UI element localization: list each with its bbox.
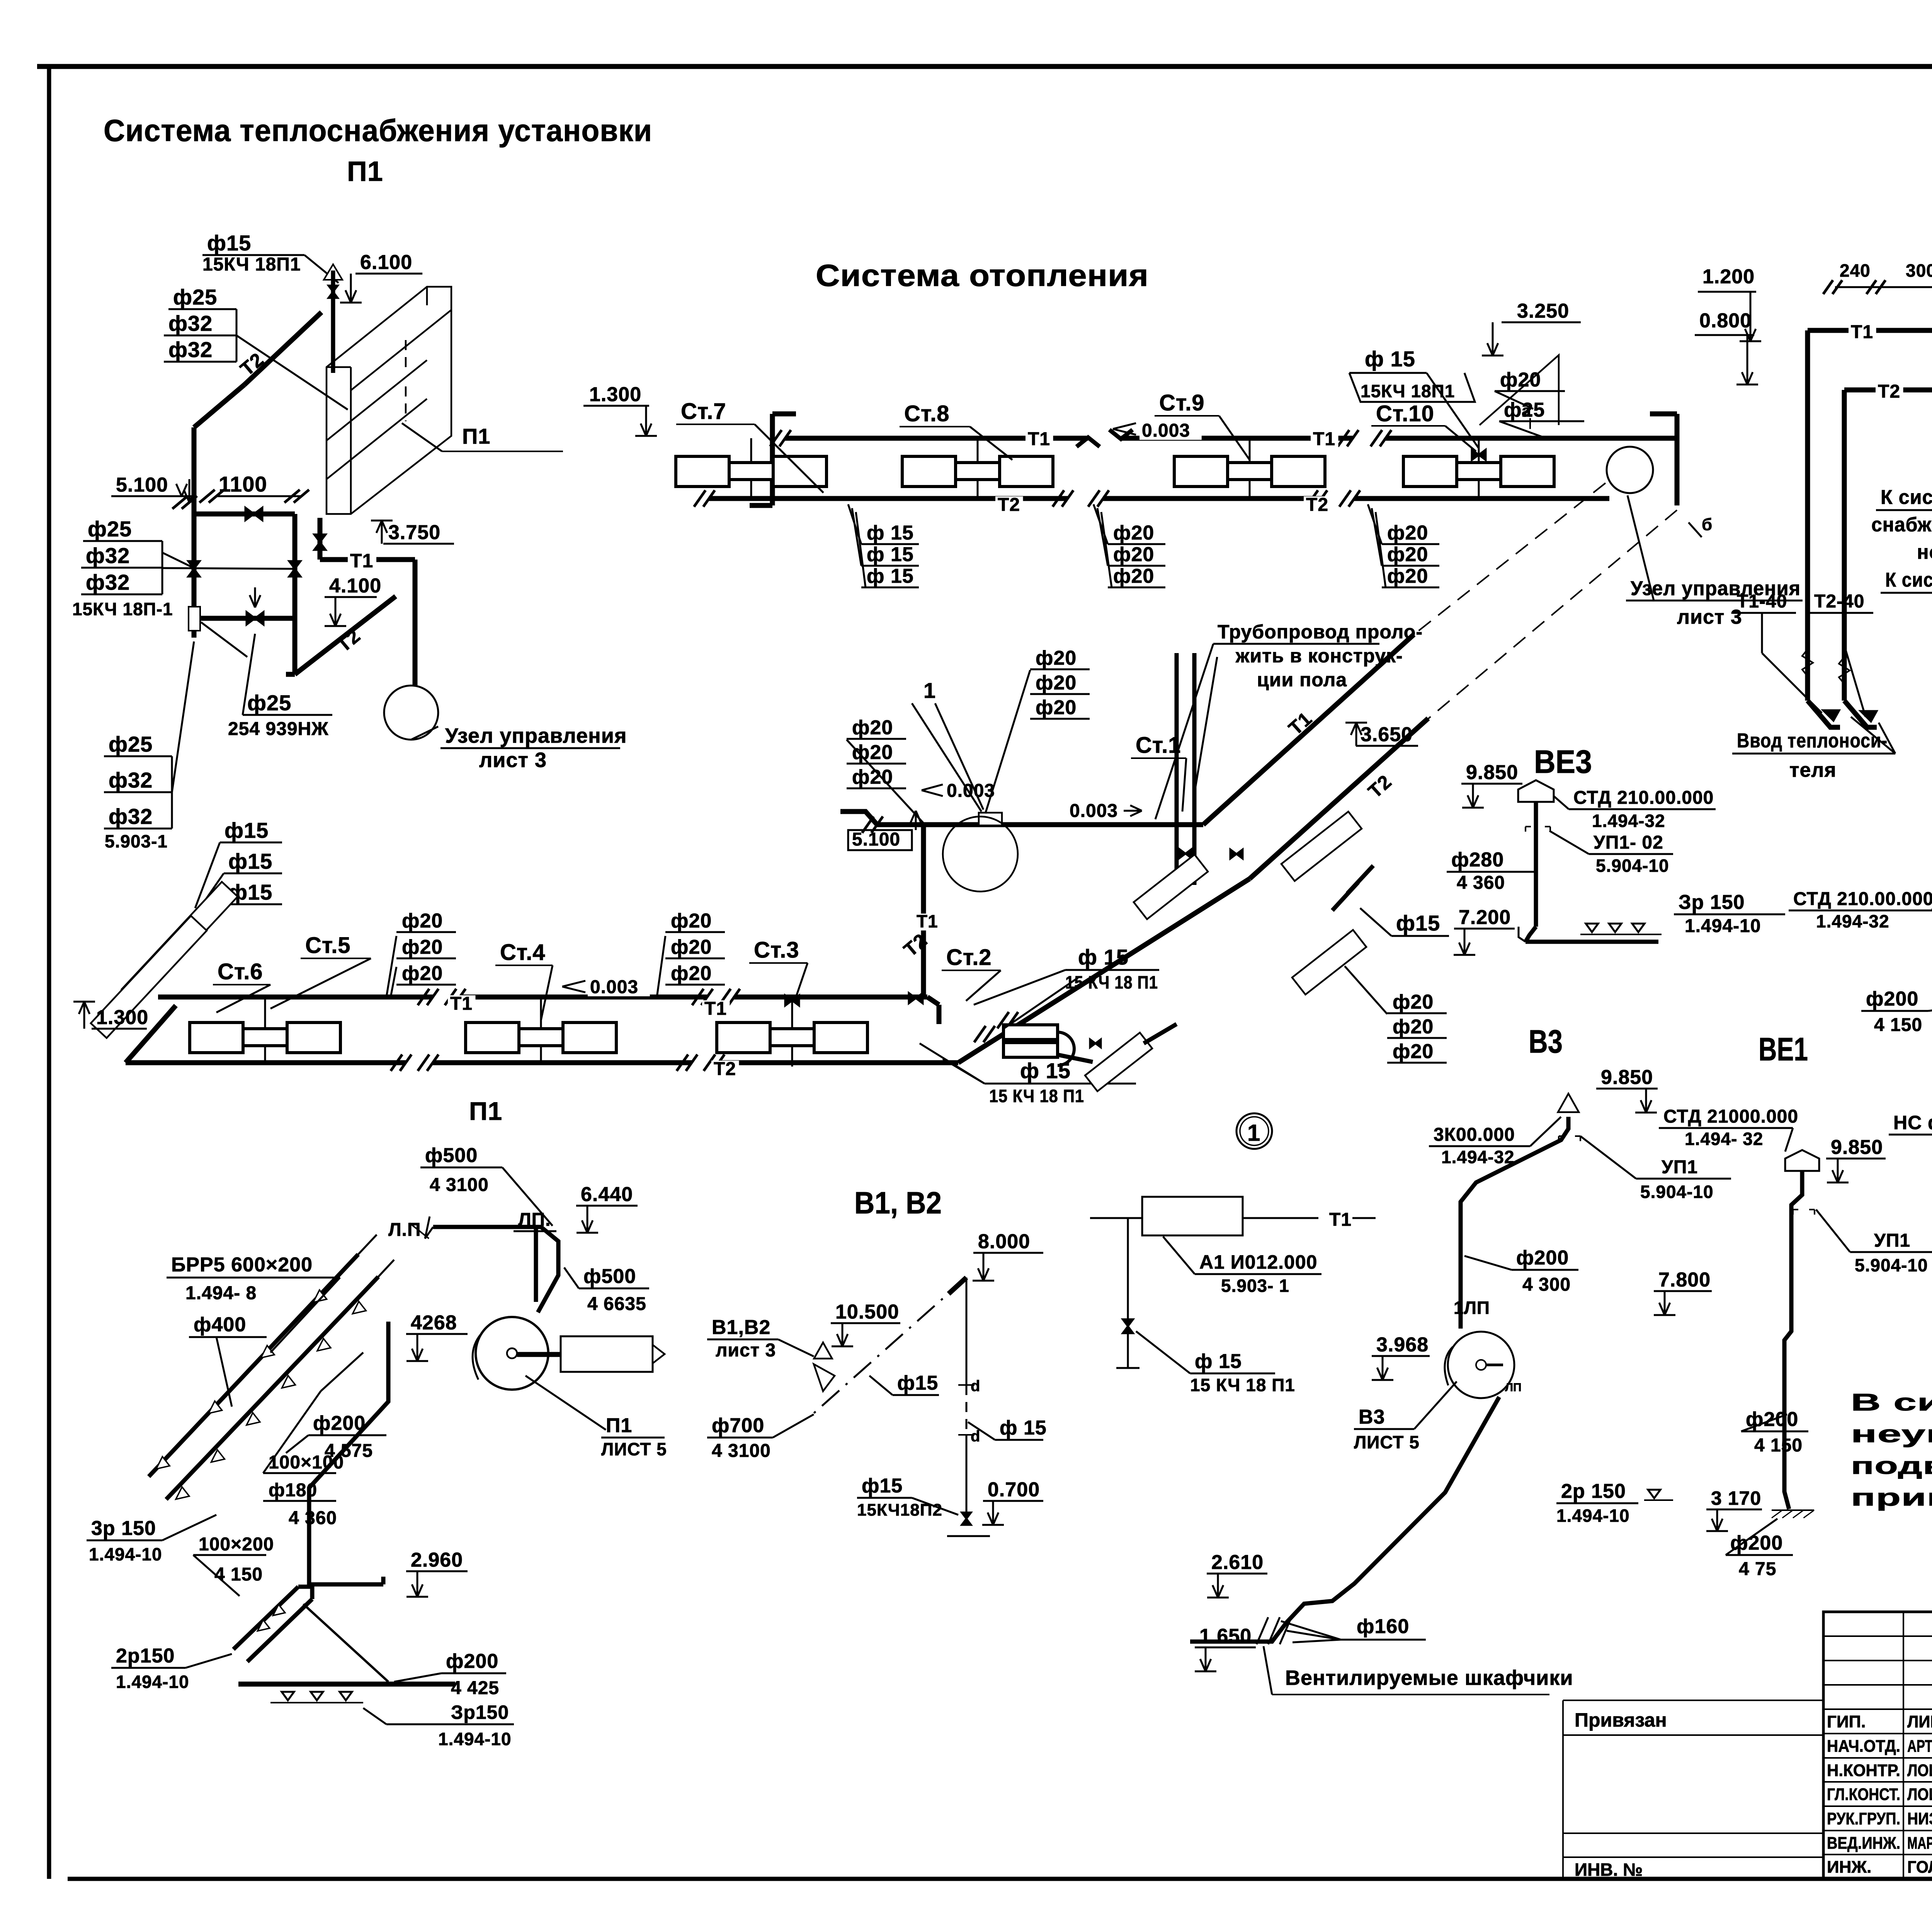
svg-text:ф20: ф20 — [1113, 522, 1154, 544]
svg-text:5.904-10: 5.904-10 — [1855, 1255, 1928, 1275]
svg-text:принять диаметром 15.: принять диаметром 15. — [1851, 1484, 1932, 1511]
svg-text:15 КЧ 18 П1: 15 КЧ 18 П1 — [1190, 1375, 1295, 1395]
svg-text:СТД 21000.000: СТД 21000.000 — [1663, 1106, 1798, 1127]
svg-text:ф700: ф700 — [712, 1414, 764, 1437]
svg-text:Ст.5: Ст.5 — [305, 933, 351, 958]
svg-text:Т2-40: Т2-40 — [1814, 591, 1864, 612]
svg-text:ф200: ф200 — [1516, 1247, 1569, 1269]
svg-text:Т2: Т2 — [714, 1059, 736, 1079]
svg-text:ЛОШАКОВА: ЛОШАКОВА — [1907, 1761, 1932, 1780]
svg-text:7.200: 7.200 — [1459, 906, 1511, 929]
svg-text:3К00.000: 3К00.000 — [1434, 1125, 1515, 1145]
svg-text:ЛИВТОРАК: ЛИВТОРАК — [1907, 1712, 1932, 1731]
svg-text:Система отопления: Система отопления — [816, 258, 1149, 293]
svg-text:ИНВ. №: ИНВ. № — [1575, 1860, 1643, 1880]
svg-text:4 75: 4 75 — [1739, 1559, 1776, 1579]
svg-text:П1: П1 — [347, 156, 383, 187]
svg-text:1.200: 1.200 — [1702, 265, 1755, 288]
svg-text:100×200: 100×200 — [199, 1534, 274, 1555]
svg-text:Узел управления: Узел управления — [445, 724, 627, 747]
svg-text:1.494-32: 1.494-32 — [1592, 811, 1665, 831]
svg-text:БРР5 600×200: БРР5 600×200 — [171, 1254, 313, 1276]
svg-text:Ст.8: Ст.8 — [904, 401, 950, 426]
svg-text:1.650: 1.650 — [1199, 1625, 1252, 1647]
svg-text:Ст.4: Ст.4 — [500, 940, 546, 965]
svg-text:Т1: Т1 — [1851, 322, 1873, 342]
svg-text:4 150: 4 150 — [214, 1564, 263, 1585]
svg-text:ф15: ф15 — [862, 1475, 903, 1497]
svg-text:2р 150: 2р 150 — [1561, 1480, 1626, 1502]
svg-text:Ст.7: Ст.7 — [681, 399, 726, 424]
svg-text:НС ф200: НС ф200 — [1893, 1112, 1932, 1133]
svg-text:4 360: 4 360 — [1457, 873, 1505, 893]
svg-text:ф32: ф32 — [168, 337, 213, 362]
svg-text:НАЧ.ОТД.: НАЧ.ОТД. — [1827, 1737, 1900, 1756]
svg-text:Н.КОНТР.: Н.КОНТР. — [1827, 1761, 1900, 1780]
svg-text:1100: 1100 — [219, 472, 267, 496]
svg-text:ф20: ф20 — [671, 910, 712, 932]
svg-text:ф32: ф32 — [109, 768, 153, 792]
svg-text:1ЛП: 1ЛП — [1454, 1298, 1490, 1318]
svg-text:Т1: Т1 — [704, 999, 727, 1019]
svg-text:ф20: ф20 — [1393, 1040, 1434, 1063]
svg-text:ГИП.: ГИП. — [1827, 1712, 1866, 1731]
svg-text:3.250: 3.250 — [1517, 300, 1569, 322]
svg-text:Т1: Т1 — [350, 550, 373, 572]
svg-text:Привязан: Привязан — [1575, 1709, 1667, 1731]
svg-text:8.000: 8.000 — [978, 1230, 1030, 1253]
svg-text:300: 300 — [1906, 260, 1932, 281]
svg-text:0.003: 0.003 — [1142, 420, 1190, 441]
svg-text:1.494- 32: 1.494- 32 — [1685, 1129, 1763, 1149]
svg-text:АРТЮШЕНКО: АРТЮШЕНКО — [1907, 1737, 1932, 1756]
svg-text:ЛОШАКОВА: ЛОШАКОВА — [1907, 1785, 1932, 1804]
svg-text:Зр150: Зр150 — [451, 1701, 509, 1723]
svg-text:теля: теля — [1789, 759, 1837, 781]
svg-text:d: d — [971, 1428, 980, 1445]
svg-text:РУК.ГРУП.: РУК.ГРУП. — [1827, 1809, 1900, 1828]
svg-text:ф200: ф200 — [1866, 988, 1918, 1010]
svg-text:15КЧ 18П-1: 15КЧ 18П-1 — [72, 599, 173, 619]
svg-text:4 3100: 4 3100 — [712, 1441, 771, 1461]
svg-text:ф20: ф20 — [402, 910, 443, 932]
svg-text:Ст.3: Ст.3 — [754, 937, 799, 963]
svg-text:15 КЧ 18 П1: 15 КЧ 18 П1 — [989, 1086, 1084, 1106]
svg-text:ф32: ф32 — [86, 570, 130, 594]
svg-text:1: 1 — [923, 678, 936, 703]
svg-text:ф 15: ф 15 — [867, 565, 914, 587]
svg-text:ф15: ф15 — [228, 849, 272, 873]
svg-text:ГЛ.КОНСТ.: ГЛ.КОНСТ. — [1827, 1785, 1900, 1804]
svg-text:1.494-10: 1.494-10 — [1685, 916, 1761, 936]
svg-text:Ст.10: Ст.10 — [1376, 401, 1434, 426]
svg-text:ф280: ф280 — [1451, 849, 1504, 871]
svg-text:Т1: Т1 — [1313, 429, 1335, 449]
svg-text:Ст.2: Ст.2 — [946, 945, 992, 970]
svg-text:ф20: ф20 — [671, 962, 712, 985]
svg-text:П1: П1 — [606, 1414, 632, 1437]
svg-text:Ст.1: Ст.1 — [1136, 733, 1181, 758]
svg-text:9.850: 9.850 — [1466, 761, 1518, 784]
svg-text:МАРКОВКИНА: МАРКОВКИНА — [1907, 1834, 1932, 1853]
svg-text:Т1: Т1 — [1028, 429, 1050, 449]
svg-text:1.494-10: 1.494-10 — [116, 1672, 189, 1692]
svg-text:ф200: ф200 — [1730, 1532, 1783, 1554]
svg-text:б: б — [1702, 515, 1712, 534]
svg-text:ф20: ф20 — [1387, 543, 1428, 566]
svg-text:ф400: ф400 — [194, 1313, 246, 1336]
svg-text:В1, В2: В1, В2 — [854, 1186, 942, 1220]
svg-text:УП1: УП1 — [1662, 1157, 1698, 1177]
svg-text:ф15: ф15 — [1396, 911, 1440, 935]
svg-text:4 6635: 4 6635 — [587, 1294, 646, 1314]
svg-text:ф15: ф15 — [207, 231, 251, 255]
svg-text:4 360: 4 360 — [289, 1508, 337, 1528]
svg-text:ГОЛЕНДЕР: ГОЛЕНДЕР — [1907, 1858, 1932, 1877]
svg-text:ВЕД.ИНЖ.: ВЕД.ИНЖ. — [1827, 1834, 1900, 1853]
svg-text:К системе отопления: К системе отопления — [1885, 569, 1932, 591]
svg-text:0.003: 0.003 — [590, 977, 638, 997]
svg-text:5.100: 5.100 — [116, 474, 168, 496]
svg-text:Т2: Т2 — [1878, 381, 1900, 402]
svg-text:3.650: 3.650 — [1361, 723, 1413, 746]
svg-text:ции пола: ции пола — [1257, 669, 1347, 691]
svg-text:ф200: ф200 — [446, 1650, 498, 1672]
svg-text:ЛИСТ 5: ЛИСТ 5 — [601, 1439, 667, 1459]
svg-text:УП1- 02: УП1- 02 — [1594, 832, 1663, 853]
svg-text:9.850: 9.850 — [1831, 1136, 1883, 1159]
svg-text:ф20: ф20 — [1113, 565, 1154, 587]
svg-text:ф20: ф20 — [852, 716, 893, 739]
svg-text:П1: П1 — [462, 424, 490, 448]
svg-text:ф20: ф20 — [1036, 672, 1077, 694]
svg-text:А1 И012.000: А1 И012.000 — [1199, 1251, 1317, 1273]
svg-text:ф32: ф32 — [168, 311, 213, 335]
svg-text:ф20: ф20 — [1393, 1016, 1434, 1038]
svg-text:ф25: ф25 — [247, 691, 291, 715]
svg-text:ф25: ф25 — [109, 732, 153, 756]
svg-text:2р150: 2р150 — [116, 1645, 175, 1667]
svg-text:5.100: 5.100 — [852, 829, 900, 850]
svg-text:ф25: ф25 — [88, 517, 132, 541]
svg-text:ф 15: ф 15 — [1365, 347, 1415, 371]
svg-text:ф20: ф20 — [1500, 369, 1541, 391]
svg-text:4 150: 4 150 — [1874, 1015, 1922, 1035]
svg-text:5.903- 1: 5.903- 1 — [1221, 1276, 1289, 1296]
svg-text:ф500: ф500 — [425, 1144, 478, 1167]
svg-text:4 425: 4 425 — [451, 1678, 499, 1698]
svg-text:Зр 150: Зр 150 — [1679, 891, 1745, 914]
svg-text:ф25: ф25 — [1504, 399, 1545, 421]
svg-text:Вентилируемые шкафчики: Вентилируемые шкафчики — [1285, 1666, 1573, 1690]
svg-text:ИНЖ.: ИНЖ. — [1827, 1858, 1871, 1877]
svg-text:ф20: ф20 — [1387, 565, 1428, 587]
svg-text:К системе тепло-: К системе тепло- — [1881, 486, 1932, 509]
svg-text:жить в конструк-: жить в конструк- — [1235, 645, 1403, 667]
svg-text:Т1: Т1 — [1329, 1210, 1352, 1230]
svg-text:ф 15: ф 15 — [867, 543, 914, 566]
svg-text:4 300: 4 300 — [1522, 1274, 1571, 1295]
svg-text:В системе отопления все: В системе отопления все — [1851, 1389, 1932, 1416]
svg-text:0.800: 0.800 — [1699, 310, 1752, 332]
svg-text:ф20: ф20 — [402, 962, 443, 985]
svg-text:ф20: ф20 — [1036, 696, 1077, 719]
svg-text:2.960: 2.960 — [411, 1549, 463, 1571]
svg-text:ф25: ф25 — [173, 285, 217, 309]
svg-text:ф15: ф15 — [224, 818, 269, 842]
svg-text:ф20: ф20 — [852, 766, 893, 788]
svg-text:ф20: ф20 — [1393, 991, 1434, 1013]
svg-text:Ст.6: Ст.6 — [218, 959, 263, 984]
svg-text:ф 15: ф 15 — [1078, 945, 1129, 969]
svg-text:Система теплоснабжения устан: Система теплоснабжения установки — [104, 113, 652, 148]
svg-text:ф160: ф160 — [1357, 1615, 1409, 1638]
svg-text:2.610: 2.610 — [1211, 1551, 1264, 1574]
svg-text:4 150: 4 150 — [1754, 1435, 1803, 1456]
svg-text:ф20: ф20 — [402, 936, 443, 958]
svg-text:ф 15: ф 15 — [1195, 1350, 1242, 1373]
svg-text:240: 240 — [1840, 260, 1871, 281]
svg-text:6.100: 6.100 — [360, 251, 412, 274]
svg-text:5.903-1: 5.903-1 — [105, 831, 168, 851]
svg-text:9.850: 9.850 — [1601, 1066, 1653, 1089]
svg-text:15КЧ 18П1: 15КЧ 18П1 — [202, 254, 301, 275]
svg-text:ЛИСТ 5: ЛИСТ 5 — [1354, 1432, 1420, 1452]
svg-text:0.700: 0.700 — [988, 1479, 1040, 1501]
svg-text:ф 15: ф 15 — [867, 522, 914, 544]
svg-text:ф20: ф20 — [1113, 543, 1154, 566]
svg-text:Т1: Т1 — [917, 911, 938, 931]
svg-text:ф20: ф20 — [671, 936, 712, 958]
svg-text:Т2: Т2 — [998, 495, 1020, 515]
svg-text:1.300: 1.300 — [589, 383, 641, 406]
svg-text:15КЧ 18П1: 15КЧ 18П1 — [1361, 381, 1455, 401]
svg-text:лист 3: лист 3 — [716, 1340, 776, 1361]
svg-text:ЛП: ЛП — [1505, 1381, 1522, 1394]
svg-text:Т1-40: Т1-40 — [1737, 591, 1787, 612]
svg-text:неуказанные диаметры стояков: неуказанные диаметры стояков и — [1851, 1421, 1932, 1448]
svg-text:новки П1: новки П1 — [1917, 541, 1932, 563]
svg-text:ф 15: ф 15 — [1000, 1417, 1047, 1439]
svg-text:ф20: ф20 — [1387, 522, 1428, 544]
svg-text:НИЗАМОВА: НИЗАМОВА — [1907, 1809, 1932, 1828]
svg-text:4 3100: 4 3100 — [430, 1175, 489, 1195]
svg-text:В3: В3 — [1359, 1406, 1385, 1428]
svg-text:7.800: 7.800 — [1658, 1269, 1711, 1291]
svg-text:10.500: 10.500 — [835, 1301, 899, 1323]
svg-text:6.440: 6.440 — [581, 1183, 633, 1206]
svg-text:4.100: 4.100 — [329, 575, 381, 597]
svg-text:Л.П: Л.П — [388, 1220, 421, 1240]
svg-text:Т1: Т1 — [450, 994, 473, 1014]
svg-text:1.494-32: 1.494-32 — [1441, 1147, 1515, 1167]
svg-text:1.300: 1.300 — [96, 1006, 148, 1029]
svg-text:ВЕ1: ВЕ1 — [1759, 1031, 1808, 1067]
svg-text:лист 3: лист 3 — [479, 749, 547, 772]
svg-text:15 КЧ 18 П1: 15 КЧ 18 П1 — [1065, 972, 1158, 992]
svg-text:снабжения уста-: снабжения уста- — [1871, 514, 1932, 536]
svg-text:Т2: Т2 — [1306, 495, 1328, 515]
svg-text:1.494-10: 1.494-10 — [89, 1544, 162, 1564]
svg-text:3.750: 3.750 — [388, 521, 440, 544]
svg-text:Ст.9: Ст.9 — [1159, 390, 1205, 415]
svg-text:1.494-32: 1.494-32 — [1816, 911, 1889, 931]
svg-text:1.494-10: 1.494-10 — [438, 1729, 512, 1749]
svg-text:ф32: ф32 — [109, 804, 153, 829]
svg-text:лист 3: лист 3 — [1677, 606, 1742, 628]
svg-text:ф 15: ф 15 — [1020, 1058, 1071, 1083]
svg-text:0.003: 0.003 — [1070, 801, 1118, 821]
svg-text:5.904-10: 5.904-10 — [1596, 856, 1669, 876]
svg-text:4268: 4268 — [411, 1312, 457, 1334]
svg-text:СТД 210.00.000: СТД 210.00.000 — [1793, 889, 1932, 909]
svg-text:5.904-10: 5.904-10 — [1640, 1182, 1714, 1202]
svg-text:ф32: ф32 — [86, 543, 130, 568]
svg-text:Ввод теплоноси-: Ввод теплоноси- — [1737, 730, 1888, 752]
svg-text:В1,В2: В1,В2 — [712, 1316, 770, 1339]
svg-text:УП1: УП1 — [1874, 1230, 1910, 1251]
svg-text:1.494-10: 1.494-10 — [1556, 1506, 1630, 1526]
svg-text:СТД 210.00.000: СТД 210.00.000 — [1573, 788, 1714, 808]
svg-text:ф500: ф500 — [583, 1265, 636, 1288]
svg-text:ф200: ф200 — [313, 1412, 366, 1434]
svg-text:d: d — [971, 1378, 980, 1395]
svg-text:254 939НЖ: 254 939НЖ — [228, 719, 329, 739]
svg-text:3.968: 3.968 — [1376, 1334, 1429, 1356]
svg-text:1: 1 — [1247, 1120, 1260, 1146]
svg-text:ВЕ3: ВЕ3 — [1534, 744, 1592, 780]
svg-text:3р 150: 3р 150 — [91, 1517, 156, 1540]
svg-text:П1: П1 — [469, 1097, 502, 1125]
svg-text:4 575: 4 575 — [325, 1441, 373, 1461]
svg-text:ф15: ф15 — [897, 1372, 938, 1394]
svg-text:3 170: 3 170 — [1711, 1487, 1761, 1509]
svg-text:ф180: ф180 — [269, 1480, 317, 1501]
svg-text:Трубопровод проло-: Трубопровод проло- — [1218, 621, 1423, 643]
svg-text:1.494- 8: 1.494- 8 — [185, 1283, 257, 1303]
svg-text:подводок к нагревательным приб: подводок к нагревательным приборам — [1851, 1453, 1932, 1479]
svg-text:ф20: ф20 — [1036, 647, 1077, 669]
svg-text:В3: В3 — [1529, 1023, 1563, 1060]
